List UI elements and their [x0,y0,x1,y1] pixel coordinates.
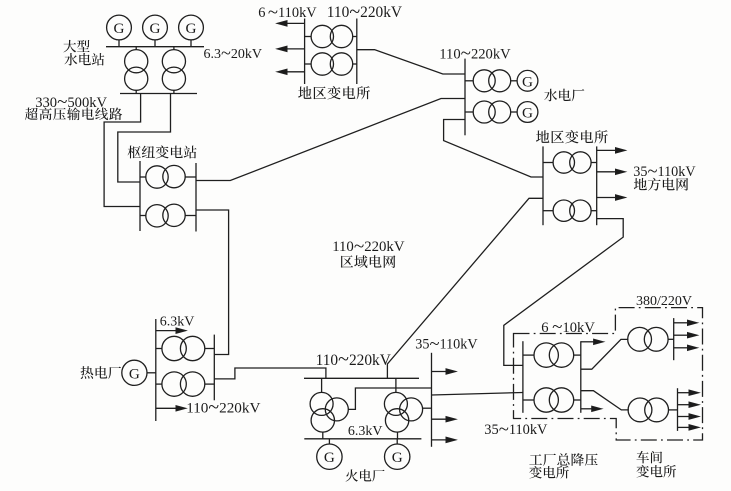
arrow workshop 3 [674,345,698,350]
arrow workshop 6 [678,414,700,419]
label huodianchang [345,469,384,481]
busbar 6.3-20kV hydro station [106,46,204,48]
busbar workshop top [673,318,675,360]
wire district-top to hydro-plant [357,50,465,74]
wire EHV line A [104,94,141,207]
svg-text:6 ~10kV: 6 ~10kV [541,317,595,338]
wire factory T2 stubs [523,399,534,401]
transformer T2 thermal [162,372,205,396]
wire district-top T2 stubs [305,63,312,65]
transformer T1 district-top [311,25,353,47]
label shuidianzhan [64,53,104,66]
transformer T2 district-right [553,200,591,221]
busbar 35-110kV mid [431,353,433,447]
transformer T2 factory [534,388,574,412]
label biandiansuo-f [529,466,569,479]
busbar thermal 6.3kV [155,319,157,421]
svg-text:35~110kV: 35~110kV [484,419,548,440]
busbar district-top right 110-220kV [356,19,358,85]
busbar thermal 110-220kV [213,335,215,401]
wire workshop T2 stub [669,409,678,411]
wire hub T2 stubs [140,215,147,217]
arrow local-grid 1 [597,148,626,153]
svg-text:G: G [114,20,125,37]
label daxing [63,40,89,53]
wire hydro-plant to district-right [444,120,543,178]
label quyudianwang [341,255,396,268]
transformer T1 district-right [553,152,591,173]
wire fired T2 HV stub [395,378,397,392]
wire fired T1 LV stub [322,432,324,439]
generator G8 fired [385,444,410,469]
busbar hydro-plant 110-220kV [464,59,466,136]
generator G5 hydro-plant [517,102,538,123]
busbar factory left 35-110kV [522,341,524,413]
wire thermal T1 stubs [156,348,162,350]
wire hub T1 stubs [140,176,147,178]
transformer T1 fired [310,392,348,432]
wire fired to district-right [387,198,543,378]
busbar fired 110-220kV [304,377,419,379]
generator G4 hydro-plant [517,70,538,91]
transformer T1 factory [534,343,574,367]
wire plant T2-G stub [511,111,518,113]
generator G7 fired [317,444,342,469]
transformer T2 district-top [311,53,353,75]
arrow workshop 7 [678,425,700,430]
transformer T1 workshop [628,327,668,351]
transformer T2 workshop [628,398,668,422]
wire thermal T2 stubs [156,383,162,385]
wire G3 stub [190,40,192,47]
wire fired T2 MV stub [422,407,431,409]
wire hub to hydro-plant busbar [196,99,465,181]
busbar hub right [195,163,197,232]
label gongchang [529,453,597,466]
transformer T2 hydro [162,50,185,91]
arrow workshop 1 [674,320,698,325]
transformer T1 thermal [162,336,205,360]
wire fired T1 MV link [348,388,431,409]
arrow feeder 3 [277,69,305,74]
wire fired T1 HV stub [321,378,323,392]
busbar 330-500kV hydro station [120,93,197,95]
busbar workshop bottom [677,388,679,431]
generator G3 hydro [179,15,204,40]
label biandiansuo-w [636,465,676,478]
wire T1 HV stub [135,47,137,50]
wire factory T1 stubs [523,354,534,356]
busbar district-right left [542,146,544,225]
wire district-right T1 stubs [543,162,553,164]
svg-text:35~110kV: 35~110kV [415,334,478,354]
wire plant T1 stub [465,80,473,82]
arrow factory 2 [581,406,602,411]
label chejian [636,451,662,464]
busbar district-right right [596,146,598,225]
label redianchang [80,366,121,379]
label chaogaoya [25,107,122,120]
svg-text:110~220kV: 110~220kV [439,43,511,64]
generator G6 thermal [122,360,147,385]
label diqubiandiansuo-right [536,130,608,143]
wire EHV line B [118,94,171,183]
generator G1 hydro [107,15,132,40]
svg-text:G: G [129,365,140,382]
arrow local-grid 2 [597,169,626,174]
transformer T2 hydro-plant [473,101,511,123]
transformer T1 hub [146,165,185,188]
arrow workshop 4 [678,390,700,395]
wire mid to factory [432,393,523,396]
wire factory to workshop T1 [581,339,629,369]
transformer T2 hub [146,204,185,227]
wire T1 LV stub [135,90,137,93]
arrow workshop 2 [674,333,698,338]
wire G7 stub [328,439,330,444]
arrow mid 2 [432,417,457,422]
wire workshop T1 stub [668,338,674,340]
busbar hub left [139,161,141,231]
arrow workshop 5 [678,402,700,407]
wire factory to workshop T2 [581,391,629,410]
svg-text:6~110kV: 6~110kV [258,2,317,23]
svg-text:6.3~20kV: 6.3~20kV [204,43,262,63]
wire G6 stub [147,372,156,374]
arrow local-grid 3 [597,195,626,200]
transformer T1 hydro [125,50,148,91]
svg-text:110~220kV: 110~220kV [186,396,260,418]
busbar district-top left 6-110kV [304,19,306,85]
svg-text:G: G [392,449,403,466]
arrow feeder 1 [277,21,305,26]
wire plant T1-G stub [511,80,518,82]
wire G8 stub [396,439,398,444]
wire T2 LV stub [173,90,175,93]
generator G2 hydro [143,15,168,40]
arrow thermal bottom [156,406,186,411]
label difangdianwang [634,178,688,191]
wire T2 HV stub [173,47,175,50]
svg-text:110~220kV: 110~220kV [332,236,405,257]
label shuidianchang [544,89,584,102]
wire district-right T2 stubs [543,210,553,212]
svg-text:110~220kV: 110~220kV [327,1,402,23]
wire fired T2 LV stub [397,432,399,439]
wire G2 stub [154,40,156,47]
busbar factory right 6-10kV [580,341,582,413]
svg-text:G: G [186,20,197,37]
arrow factory 1 [581,339,604,344]
wire G1 stub [118,40,120,47]
wire thermal to fired-plant busbar [214,368,326,379]
svg-text:G: G [324,449,335,466]
boundary factory and workshop (dash-dot) [514,308,703,440]
transformer T1 hydro-plant [473,70,511,92]
svg-text:G: G [150,20,161,37]
arrow mid 3 [432,437,457,442]
arrow thermal top [156,328,186,333]
arrow feeder 2 [277,46,305,51]
transformer T2 fired [384,392,422,432]
busbar fired 6.3kV [304,438,421,440]
label shuniu [128,145,197,158]
arrow mid 1 [432,369,457,374]
svg-text:380/220V: 380/220V [636,294,692,309]
wire district-top T1 stubs [305,36,312,38]
wire hub to thermal-station busbar [196,210,229,355]
wire plant T2 stub [465,111,473,113]
svg-text:6.3kV: 6.3kV [160,315,195,330]
svg-text:G: G [522,73,533,90]
svg-text:G: G [522,105,533,122]
svg-text:110~220kV: 110~220kV [316,349,391,371]
label diqubiandiansuo-top [298,86,370,99]
svg-text:6.3kV: 6.3kV [348,424,383,439]
wire district-right to factory [504,219,623,366]
